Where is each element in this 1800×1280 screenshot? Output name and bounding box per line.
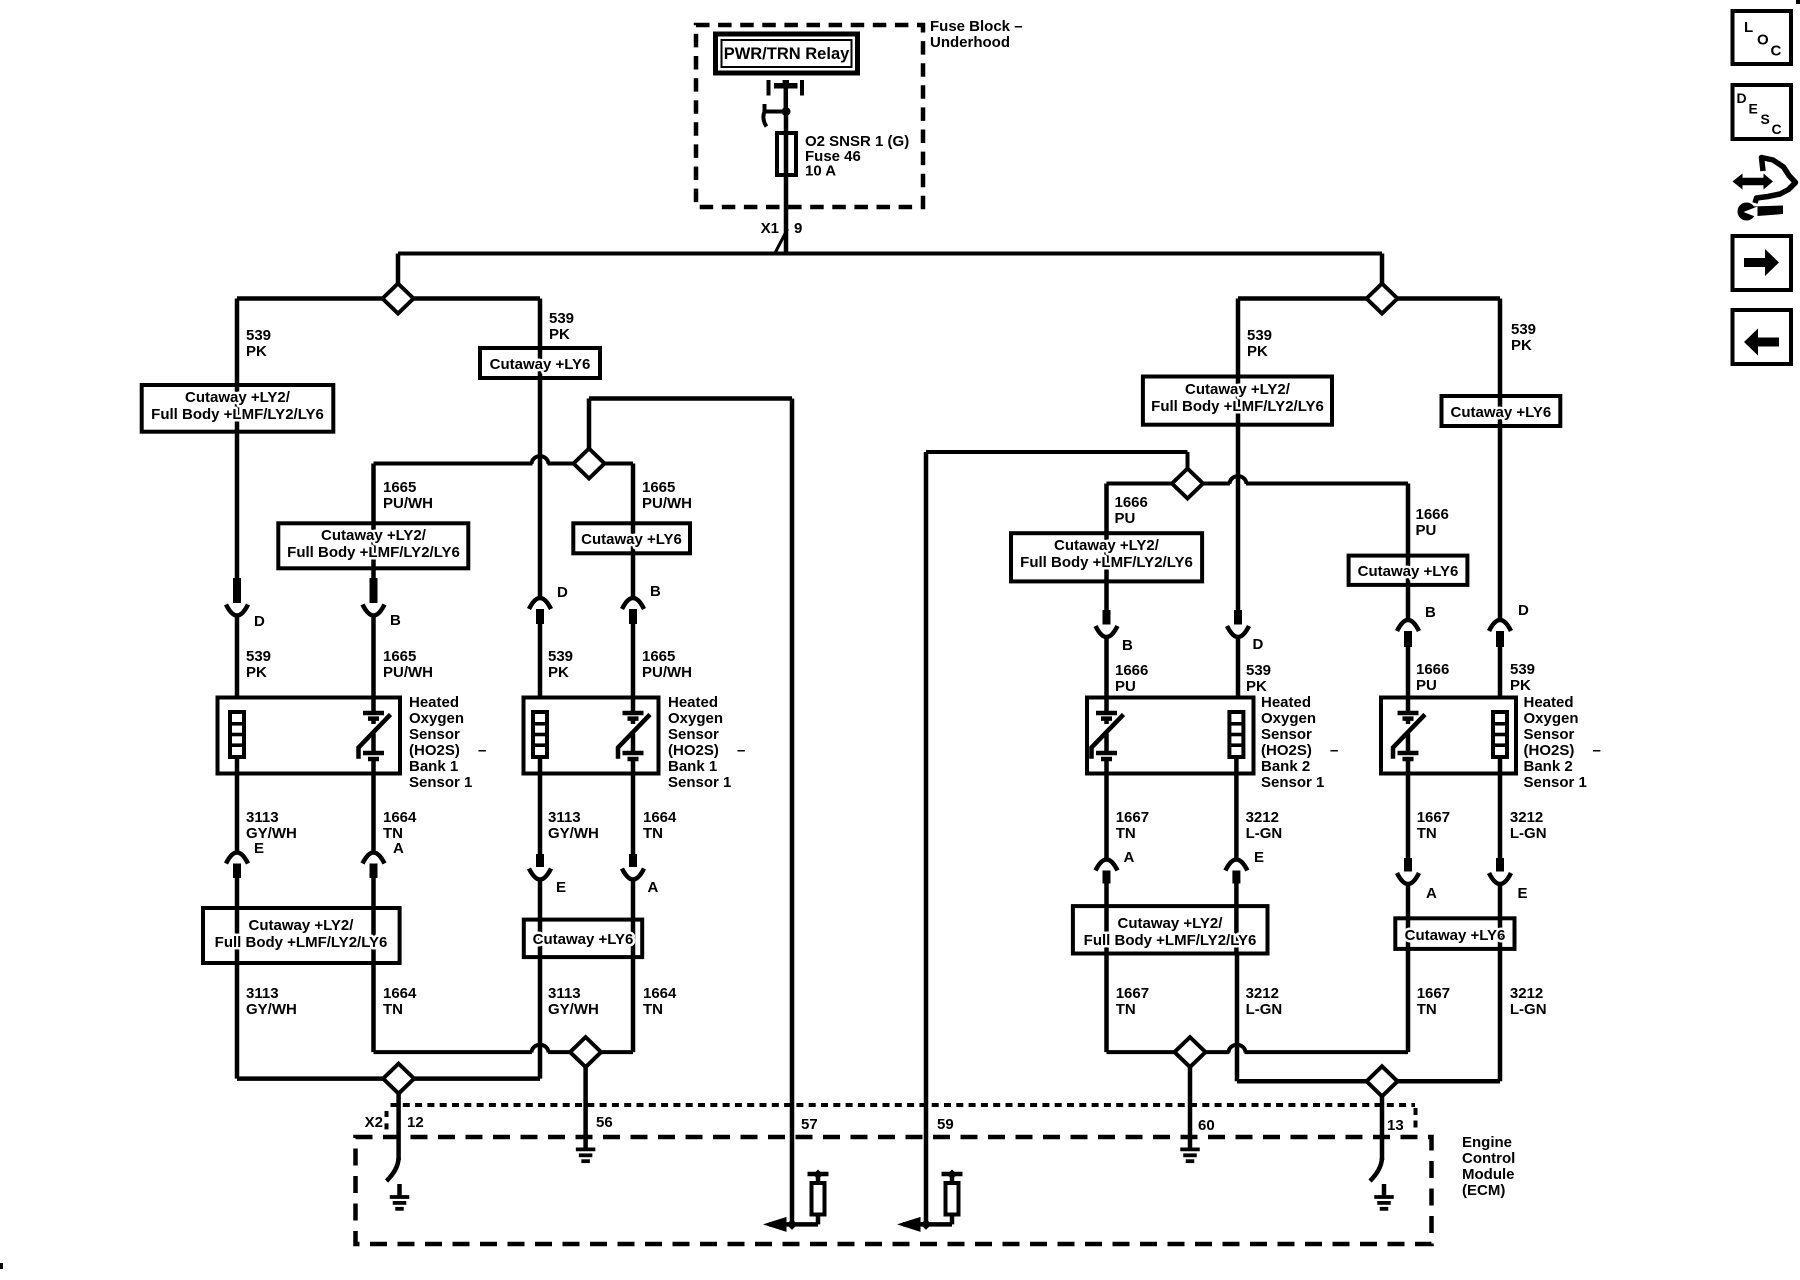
svg-text:E: E (1254, 849, 1264, 866)
svg-text:1667: 1667 (1116, 985, 1149, 1002)
svg-text:TN: TN (1116, 825, 1136, 842)
svg-text:Heated: Heated (409, 694, 459, 711)
svg-text:Oxygen: Oxygen (1261, 710, 1316, 727)
svg-text:Cutaway +LY6: Cutaway +LY6 (1451, 404, 1552, 421)
svg-text:1664: 1664 (383, 985, 417, 1002)
svg-text:3113: 3113 (548, 985, 581, 1002)
svg-text:PK: PK (1247, 343, 1268, 360)
svg-text:–: – (737, 742, 745, 759)
svg-text:L-GN: L-GN (1246, 825, 1283, 842)
svg-text:–: – (1593, 742, 1601, 759)
svg-text:PU/WH: PU/WH (383, 664, 433, 681)
svg-text:Oxygen: Oxygen (668, 710, 723, 727)
svg-text:TN: TN (1417, 1001, 1437, 1018)
svg-text:1666: 1666 (1115, 662, 1148, 679)
svg-text:Oxygen: Oxygen (1524, 710, 1579, 727)
svg-text:–: – (478, 742, 486, 759)
svg-text:Cutaway +LY6: Cutaway +LY6 (490, 356, 591, 373)
svg-text:PK: PK (1510, 677, 1531, 694)
svg-text:D: D (1518, 602, 1529, 619)
svg-text:Sensor 1: Sensor 1 (1261, 774, 1324, 791)
svg-text:Sensor 1: Sensor 1 (409, 774, 472, 791)
svg-text:–: – (1330, 742, 1338, 759)
svg-text:3113: 3113 (548, 809, 581, 826)
svg-text:59: 59 (937, 1116, 954, 1133)
svg-text:TN: TN (1116, 1001, 1136, 1018)
svg-text:Underhood: Underhood (930, 34, 1010, 51)
svg-text:S: S (1761, 111, 1770, 127)
svg-text:PU/WH: PU/WH (642, 495, 692, 512)
svg-text:10 A: 10 A (805, 163, 836, 180)
svg-text:E: E (556, 879, 566, 896)
svg-text:Cutaway +LY6: Cutaway +LY6 (1358, 563, 1459, 580)
svg-text:GY/WH: GY/WH (246, 1001, 297, 1018)
svg-text:B: B (390, 612, 401, 629)
svg-text:Cutaway +LY2/: Cutaway +LY2/ (1185, 381, 1291, 398)
svg-text:PK: PK (548, 664, 569, 681)
svg-text:PU: PU (1416, 677, 1437, 694)
svg-text:(HO2S): (HO2S) (668, 742, 719, 759)
svg-text:PWR/TRN Relay: PWR/TRN Relay (724, 45, 850, 63)
svg-text:9: 9 (794, 220, 802, 237)
svg-text:539: 539 (548, 648, 573, 665)
svg-text:12: 12 (407, 1114, 424, 1131)
svg-text:PK: PK (549, 326, 570, 343)
svg-text:GY/WH: GY/WH (548, 825, 599, 842)
svg-text:Sensor 1: Sensor 1 (1524, 774, 1587, 791)
svg-text:C: C (1771, 43, 1782, 60)
svg-text:Sensor: Sensor (668, 726, 719, 743)
svg-text:E: E (254, 840, 264, 857)
svg-text:1666: 1666 (1115, 494, 1148, 511)
svg-text:GY/WH: GY/WH (548, 1001, 599, 1018)
svg-text:Sensor: Sensor (1524, 726, 1575, 743)
svg-text:TN: TN (383, 1001, 403, 1018)
svg-text:Heated: Heated (668, 694, 718, 711)
svg-text:PU: PU (1416, 522, 1437, 539)
svg-text:3212: 3212 (1246, 985, 1279, 1002)
svg-text:B: B (1122, 637, 1133, 654)
svg-text:Cutaway +LY6: Cutaway +LY6 (1405, 927, 1506, 944)
svg-text:D: D (254, 613, 265, 630)
svg-text:Full Body +LMF/LY2/LY6: Full Body +LMF/LY2/LY6 (287, 544, 460, 561)
svg-text:D: D (557, 584, 568, 601)
svg-text:3212: 3212 (1246, 809, 1279, 826)
svg-text:(HO2S): (HO2S) (409, 742, 460, 759)
svg-text:Cutaway +LY2/: Cutaway +LY2/ (249, 917, 355, 934)
svg-text:1667: 1667 (1417, 985, 1450, 1002)
svg-text:TN: TN (643, 1001, 663, 1018)
svg-text:Full Body +LMF/LY2/LY6: Full Body +LMF/LY2/LY6 (1151, 398, 1324, 415)
svg-text:X2: X2 (365, 1114, 383, 1131)
svg-text:Sensor: Sensor (409, 726, 460, 743)
svg-text:Cutaway +LY2/: Cutaway +LY2/ (185, 389, 291, 406)
svg-text:D: D (1253, 636, 1264, 653)
svg-text:(HO2S): (HO2S) (1261, 742, 1312, 759)
svg-text:C: C (1772, 121, 1782, 137)
svg-text:3113: 3113 (246, 985, 279, 1002)
svg-text:PU: PU (1115, 678, 1136, 695)
svg-text:PK: PK (246, 343, 267, 360)
svg-text:3212: 3212 (1510, 985, 1543, 1002)
svg-text:Bank 1: Bank 1 (409, 758, 458, 775)
svg-text:1664: 1664 (383, 809, 417, 826)
svg-text:1665: 1665 (642, 479, 675, 496)
svg-text:539: 539 (549, 310, 574, 327)
svg-text:1666: 1666 (1416, 506, 1449, 523)
svg-text:539: 539 (1511, 321, 1536, 338)
svg-text:PU: PU (1115, 510, 1136, 527)
svg-text:Cutaway +LY2/: Cutaway +LY2/ (1054, 537, 1160, 554)
svg-text:539: 539 (246, 327, 271, 344)
svg-text:3113: 3113 (246, 809, 279, 826)
svg-text:Engine: Engine (1462, 1134, 1512, 1151)
svg-text:Cutaway +LY2/: Cutaway +LY2/ (1118, 915, 1224, 932)
svg-text:A: A (1426, 885, 1437, 902)
svg-text:3212: 3212 (1510, 809, 1543, 826)
svg-text:E: E (1749, 101, 1758, 117)
svg-text:B: B (1425, 604, 1436, 621)
svg-text:B: B (650, 583, 661, 600)
svg-text:57: 57 (801, 1116, 818, 1133)
svg-text:1665: 1665 (383, 479, 416, 496)
svg-text:PU/WH: PU/WH (642, 664, 692, 681)
svg-text:L: L (1744, 19, 1753, 36)
svg-text:TN: TN (1417, 825, 1437, 842)
svg-text:(ECM): (ECM) (1462, 1182, 1505, 1199)
svg-text:1664: 1664 (643, 809, 677, 826)
svg-text:Oxygen: Oxygen (409, 710, 464, 727)
svg-text:Full Body +LMF/LY2/LY6: Full Body +LMF/LY2/LY6 (1020, 554, 1193, 571)
svg-text:13: 13 (1387, 1117, 1404, 1134)
svg-text:PK: PK (246, 664, 267, 681)
svg-text:1667: 1667 (1116, 809, 1149, 826)
svg-text:Full Body +LMF/LY2/LY6: Full Body +LMF/LY2/LY6 (1084, 932, 1257, 949)
svg-text:Bank 2: Bank 2 (1524, 758, 1573, 775)
svg-text:PK: PK (1246, 678, 1267, 695)
svg-text:L-GN: L-GN (1510, 825, 1547, 842)
svg-text:Full Body +LMF/LY2/LY6: Full Body +LMF/LY2/LY6 (151, 406, 324, 423)
svg-text:60: 60 (1198, 1117, 1215, 1134)
svg-text:PK: PK (1511, 337, 1532, 354)
svg-text:Fuse Block –: Fuse Block – (930, 18, 1023, 35)
svg-text:Module: Module (1462, 1166, 1515, 1183)
svg-text:Heated: Heated (1524, 694, 1574, 711)
svg-text:L-GN: L-GN (1510, 1001, 1547, 1018)
svg-text:Cutaway +LY6: Cutaway +LY6 (533, 931, 634, 948)
svg-text:56: 56 (596, 1114, 613, 1131)
svg-text:A: A (648, 879, 659, 896)
svg-text:539: 539 (246, 648, 271, 665)
svg-text:Bank 1: Bank 1 (668, 758, 717, 775)
svg-text:PU/WH: PU/WH (383, 495, 433, 512)
svg-text:A: A (393, 840, 404, 857)
svg-text:D: D (1737, 90, 1747, 106)
svg-text:A: A (1124, 849, 1135, 866)
svg-text:O: O (1757, 32, 1769, 49)
svg-text:Control: Control (1462, 1150, 1515, 1167)
svg-text:L-GN: L-GN (1246, 1001, 1283, 1018)
svg-text:Bank 2: Bank 2 (1261, 758, 1310, 775)
svg-text:539: 539 (1247, 327, 1272, 344)
svg-text:Cutaway +LY6: Cutaway +LY6 (581, 531, 682, 548)
svg-text:1665: 1665 (642, 648, 675, 665)
svg-text:Cutaway +LY2/: Cutaway +LY2/ (321, 527, 427, 544)
svg-text:(HO2S): (HO2S) (1524, 742, 1575, 759)
svg-text:TN: TN (643, 825, 663, 842)
svg-text:1664: 1664 (643, 985, 677, 1002)
svg-text:1667: 1667 (1417, 809, 1450, 826)
svg-text:1666: 1666 (1416, 661, 1449, 678)
svg-text:X1: X1 (761, 220, 779, 237)
svg-text:Sensor 1: Sensor 1 (668, 774, 731, 791)
svg-text:1665: 1665 (383, 648, 416, 665)
svg-text:E: E (1518, 885, 1528, 902)
svg-text:539: 539 (1246, 662, 1271, 679)
svg-text:Heated: Heated (1261, 694, 1311, 711)
svg-text:Full Body +LMF/LY2/LY6: Full Body +LMF/LY2/LY6 (215, 934, 388, 951)
svg-text:Sensor: Sensor (1261, 726, 1312, 743)
svg-text:539: 539 (1510, 661, 1535, 678)
